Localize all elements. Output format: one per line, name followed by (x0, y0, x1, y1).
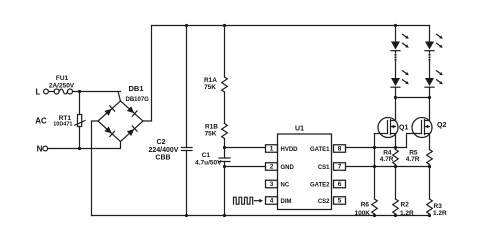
arrow into DIM pin (255, 199, 264, 203)
junction bottom rail / R3 (428, 214, 431, 217)
svg-text:8: 8 (338, 146, 342, 153)
pin 3 NC (266, 180, 290, 188)
junction top rail / LED string 1 (394, 24, 397, 27)
diode DB1 upper-right (127, 106, 137, 116)
svg-text:R2: R2 (401, 202, 410, 209)
resistor R2 (393, 167, 414, 218)
wire bridge DC+ to top rail (143, 26, 152, 122)
svg-text:4: 4 (270, 198, 274, 205)
diode DB1 upper-left (104, 106, 114, 116)
svg-text:Q2: Q2 (437, 122, 446, 129)
transistor Q1 (378, 118, 408, 138)
svg-text:7: 7 (338, 164, 342, 171)
wire CS1 from pin 7 (346, 166, 430, 168)
op-amp U1 body (278, 126, 332, 210)
diode DB1 lower-left (104, 126, 114, 136)
resistor R6 (354, 199, 377, 217)
diode DB1 lower-right (127, 126, 137, 136)
wire gate column to Q1 gate and down to R6 (375, 134, 388, 200)
svg-text:R3: R3 (434, 203, 443, 210)
svg-text:AC: AC (35, 117, 47, 126)
svg-text:4.7u/50V: 4.7u/50V (195, 160, 222, 167)
capacitor C2 (149, 26, 192, 216)
wire jog to Q2 gate (407, 134, 422, 148)
LED string 2 upper LED (425, 34, 443, 51)
svg-text:3: 3 (270, 181, 274, 188)
junction string 1 bottom (394, 96, 397, 99)
junction N/RT1 (78, 147, 81, 150)
junction Q1 source / R4 (394, 146, 397, 149)
svg-text:1.2R: 1.2R (433, 210, 447, 217)
dotted continuation string 1 (394, 54, 396, 61)
LED string 1 upper LED (391, 34, 409, 51)
svg-text:DB1: DB1 (129, 84, 144, 93)
junction gate column / GATE1 (373, 146, 376, 149)
resistor R5 (406, 148, 433, 167)
junction bottom rail / R6 (373, 214, 376, 217)
wire above lower LED (395, 62, 397, 79)
wire LED interconnect (396, 97, 430, 99)
wire fuse to bridge (73, 91, 121, 93)
svg-text:1: 1 (270, 146, 274, 153)
pin 5 CS2 (318, 197, 346, 205)
svg-text:1.2R: 1.2R (400, 210, 414, 217)
wire Q1 drain (395, 98, 397, 121)
dotted continuation string 2 (428, 54, 430, 61)
varistor RT1 (53, 92, 85, 149)
LED string 2 lower LED (425, 71, 443, 88)
pin 7 CS1 (318, 163, 346, 171)
svg-text:GATE1: GATE1 (310, 147, 330, 153)
svg-text:CS2: CS2 (318, 199, 330, 205)
svg-text:100K: 100K (354, 210, 370, 217)
wire GATE1 from pin 8 (346, 147, 407, 149)
pin 4 DIM (266, 197, 292, 205)
wire below upper LED (429, 51, 431, 53)
junction GND node (223, 165, 226, 168)
svg-text:2A/250V: 2A/250V (49, 83, 75, 90)
junction top rail / R1A (223, 24, 226, 27)
svg-text:U1: U1 (295, 126, 304, 133)
wire bridge DC- to bottom rail (92, 121, 99, 216)
wire R1A to R1B (224, 92, 226, 124)
junction top rail / C2 (185, 24, 188, 27)
wire Q2 source (429, 134, 431, 148)
junction bottom rail / GND column (223, 214, 226, 217)
wire GND column to bottom rail (224, 167, 226, 216)
junction string 2 bottom (428, 96, 431, 99)
transistor Q2 (412, 118, 446, 138)
wire Q2 drain (429, 98, 431, 121)
wire below lower LED (429, 87, 431, 97)
wire top rail to R1A (224, 26, 226, 78)
svg-text:5: 5 (338, 198, 342, 205)
svg-text:FU1: FU1 (56, 75, 69, 82)
svg-text:NC: NC (281, 182, 290, 188)
svg-text:HVDD: HVDD (281, 147, 299, 153)
wire N to bridge bottom corner (48, 142, 121, 149)
LED string 2 top wire (429, 26, 431, 42)
svg-text:GATE2: GATE2 (310, 182, 330, 188)
svg-text:CS1: CS1 (318, 165, 330, 171)
svg-text:R6: R6 (361, 202, 370, 209)
wire GND to pin 2 (225, 166, 266, 168)
wire HVDD to pin 1 (225, 147, 266, 149)
wire above lower LED (429, 62, 431, 79)
capacitor C1 (195, 148, 230, 167)
junction R4/R2 node (394, 165, 397, 168)
svg-text:DB107G: DB107G (126, 97, 150, 103)
junction L/RT1 (78, 90, 81, 93)
resistor R3 (427, 167, 447, 218)
fuse FU1 (48, 75, 74, 94)
junction gate column / CS1 (373, 165, 376, 168)
svg-text:4.7R: 4.7R (406, 156, 420, 163)
pin 1 HVDD (266, 145, 299, 153)
pin 2 GND (266, 163, 295, 171)
wire below lower LED (395, 87, 397, 97)
LED string 1 lower LED (391, 71, 409, 88)
svg-text:CBB: CBB (155, 155, 170, 162)
pin 6 GATE2 (310, 180, 346, 188)
svg-text:GND: GND (281, 165, 295, 171)
svg-text:C1: C1 (202, 152, 211, 159)
svg-text:L: L (36, 88, 41, 97)
svg-text:Q1: Q1 (399, 124, 408, 131)
resistor R1B (205, 124, 228, 139)
junction HVDD node (223, 146, 226, 149)
resistor R1A (204, 77, 227, 92)
svg-text:DIM: DIM (281, 199, 292, 205)
wire L diagonal into bridge top corner (118, 92, 121, 102)
svg-text:R1A: R1A (204, 77, 217, 84)
wire top rail (152, 25, 430, 27)
junction R5/R3 node (428, 165, 431, 168)
svg-text:N: N (37, 145, 43, 154)
svg-text:224/400V: 224/400V (149, 147, 179, 154)
svg-text:75K: 75K (205, 131, 217, 138)
svg-text:6: 6 (338, 181, 342, 188)
terminal N (37, 145, 48, 154)
wire R1B to junction (224, 139, 226, 148)
wire bottom rail (92, 215, 430, 217)
svg-text:2: 2 (270, 164, 274, 171)
wire Q1 source (395, 134, 397, 148)
junction bottom rail / R2 (394, 214, 397, 217)
svg-text:75K: 75K (204, 84, 216, 91)
svg-text:R1B: R1B (205, 124, 218, 131)
resistor R4 (380, 148, 399, 167)
svg-text:4.7R: 4.7R (380, 156, 394, 163)
LED string 1 top wire (395, 26, 397, 42)
terminal L (36, 88, 49, 97)
wire below upper LED (395, 51, 397, 53)
svg-text:C2: C2 (157, 139, 166, 146)
pin 8 GATE1 (310, 145, 346, 153)
svg-text:10D471: 10D471 (53, 122, 72, 128)
junction bottom rail / C2 (185, 214, 188, 217)
PWM dimming signal symbol (234, 197, 253, 204)
bridge rectifier DB1 (98, 84, 149, 142)
